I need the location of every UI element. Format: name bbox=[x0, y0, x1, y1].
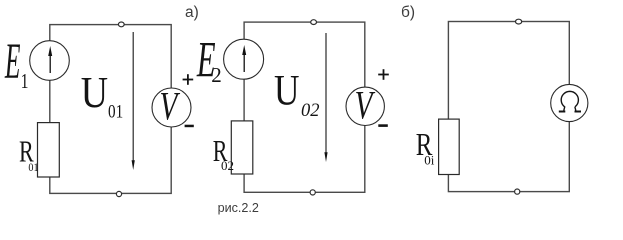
node bottom terminal circuit 2 bbox=[310, 190, 315, 195]
resistor R02 bbox=[231, 121, 253, 174]
svg-text:б): б) bbox=[401, 4, 415, 21]
label R01 bbox=[19, 134, 39, 175]
voltmeter V2 bbox=[346, 83, 384, 128]
svg-text:E: E bbox=[4, 33, 20, 90]
arrow U02 bbox=[324, 33, 327, 162]
meter (ohmmeter) circuit 3 bbox=[551, 84, 588, 121]
arrow U01 bbox=[132, 32, 135, 170]
svg-text:01: 01 bbox=[28, 161, 38, 174]
label R0i bbox=[416, 127, 435, 167]
svg-text:0i: 0i bbox=[424, 152, 435, 167]
plus sign circuit 2 bbox=[378, 69, 389, 80]
node top terminal circuit 3 bbox=[516, 19, 522, 24]
svg-text:02: 02 bbox=[221, 158, 234, 173]
source E2 bbox=[224, 39, 264, 79]
svg-text:а): а) bbox=[185, 4, 199, 21]
svg-text:01: 01 bbox=[108, 101, 123, 122]
svg-text:1: 1 bbox=[21, 70, 29, 94]
minus sign circuit 2 bbox=[378, 124, 388, 127]
voltmeter V1 bbox=[152, 84, 191, 129]
svg-text:U: U bbox=[81, 67, 108, 117]
svg-text:2: 2 bbox=[211, 63, 222, 87]
label U01 bbox=[81, 67, 123, 122]
label E1 bbox=[4, 33, 28, 94]
node top terminal circuit 1 bbox=[118, 22, 124, 27]
minus sign circuit 1 bbox=[185, 125, 194, 128]
label U02 bbox=[274, 66, 320, 121]
svg-text:V: V bbox=[160, 84, 181, 129]
node top terminal circuit 2 bbox=[311, 20, 317, 25]
svg-text:02: 02 bbox=[301, 101, 320, 121]
label R02 bbox=[213, 133, 234, 173]
resistor R01 bbox=[38, 123, 60, 177]
wire loop circuit 3 bbox=[448, 22, 569, 192]
label E2 bbox=[196, 33, 222, 89]
node bottom terminal circuit 1 bbox=[116, 191, 121, 196]
plus sign circuit 1 bbox=[183, 74, 194, 85]
wire loop circuit 1 bbox=[50, 25, 171, 194]
svg-text:рис.2.2: рис.2.2 bbox=[218, 201, 259, 215]
resistor R0i bbox=[439, 119, 460, 174]
svg-text:V: V bbox=[355, 83, 376, 128]
node bottom terminal circuit 3 bbox=[515, 189, 520, 194]
wire loop circuit 2 bbox=[244, 22, 365, 192]
source E1 bbox=[30, 41, 70, 81]
svg-text:U: U bbox=[274, 66, 299, 114]
